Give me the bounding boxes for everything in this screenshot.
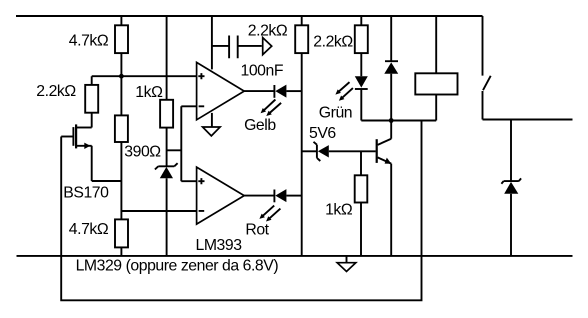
resistor 2.2k left [91, 76, 93, 127]
relay K1 [435, 16, 437, 121]
op-amp U2 LM393b [197, 167, 245, 224]
wire base [329, 150, 376, 152]
svg-text:4.7kΩ: 4.7kΩ [69, 221, 109, 238]
svg-text:LM393: LM393 [196, 237, 243, 254]
svg-text:100nF: 100nF [241, 63, 284, 80]
LED green Gruen [355, 76, 368, 87]
svg-text:1kΩ: 1kΩ [325, 201, 353, 218]
LED yellow Gelb [273, 85, 275, 98]
svg-text:5V6: 5V6 [309, 125, 336, 142]
svg-text:Grün: Grün [319, 104, 352, 121]
wire cap branch column [212, 16, 229, 69]
signal arrow out [263, 38, 272, 55]
svg-text:390Ω: 390Ω [124, 143, 161, 160]
resistor 4.7k bottom [115, 219, 128, 247]
svg-text:4.7kΩ: 4.7kΩ [69, 33, 109, 50]
wire ground rail [17, 255, 573, 257]
capacitor C1 100nF [229, 36, 262, 59]
svg-text:2.2kΩ: 2.2kΩ [36, 83, 76, 100]
switch S1 [483, 16, 573, 120]
ground op-amp 1 [211, 113, 213, 127]
wire op-amp 1 output [244, 90, 274, 92]
svg-text:BS170: BS170 [63, 185, 109, 202]
diode D2 flyback [385, 16, 398, 61]
wire op-amp 2 output [244, 195, 274, 197]
LED red Rot [273, 190, 275, 203]
node B dot [389, 118, 394, 123]
svg-text:1kΩ: 1kΩ [135, 84, 163, 101]
svg-text:2.2kΩ: 2.2kΩ [313, 34, 353, 51]
wire node A to op-amp 1 plus input [92, 75, 197, 77]
wire bottom feedback loop [61, 121, 421, 301]
svg-text:2.2kΩ: 2.2kΩ [248, 23, 288, 40]
zener D3 5V6 [302, 150, 317, 152]
resistor 1k base [360, 151, 362, 256]
wire top supply rail [16, 15, 483, 17]
node A dot [119, 74, 124, 79]
transistor Q1 BS170 mosfet [77, 127, 92, 129]
transistor Q2 npn [376, 139, 378, 163]
wire op-amp 2 minus input [121, 210, 196, 212]
ground symbol [346, 256, 348, 263]
zener D4 output [510, 120, 512, 182]
op-amp U1 LM393a [197, 62, 245, 119]
resistor 1k reference [166, 16, 168, 166]
resistor 390 [115, 115, 128, 142]
wire reference node jog [167, 106, 197, 181]
svg-text:LM329 (oppure zener da 6.8V): LM329 (oppure zener da 6.8V) [76, 258, 279, 275]
resistor 4.7k top [120, 16, 122, 115]
zener D1 LM329 [155, 163, 178, 169]
resistor 2.2k pullup b [360, 16, 362, 76]
svg-text:Gelb: Gelb [244, 117, 276, 134]
resistor 2.2k pullup a [301, 16, 303, 256]
svg-text:Rot: Rot [245, 221, 269, 238]
